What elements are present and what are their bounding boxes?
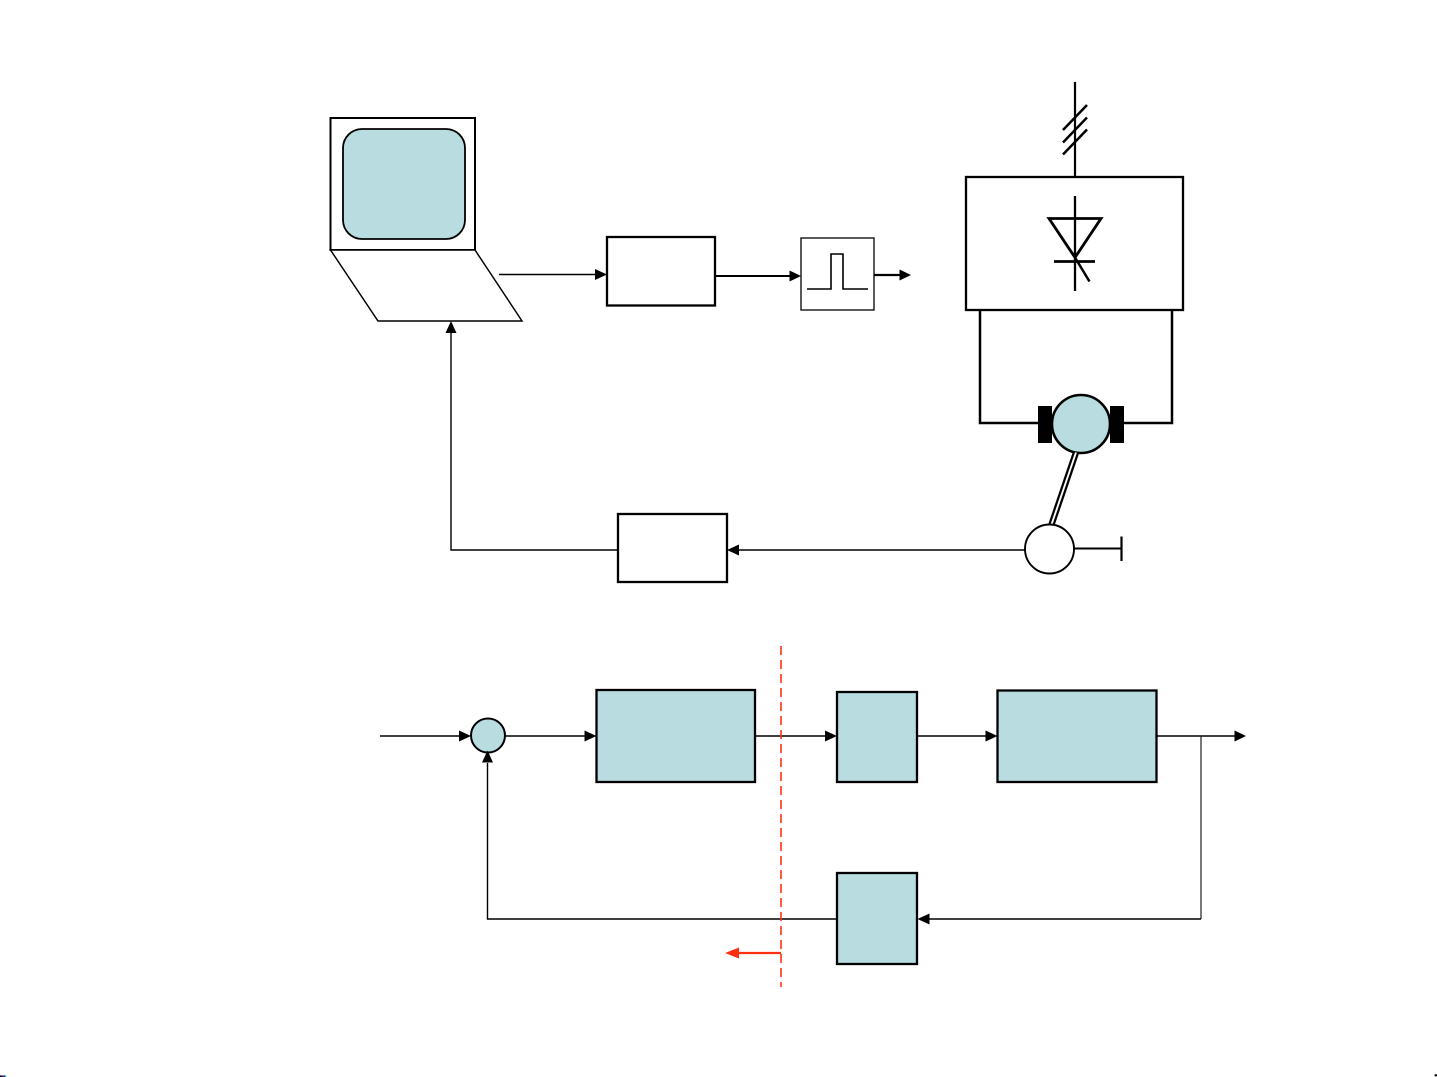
controller box bbox=[607, 237, 715, 306]
motor brush left bbox=[1038, 406, 1052, 443]
output arrow of pulse unit bbox=[874, 274, 900, 276]
converter block bbox=[837, 692, 917, 782]
summing junction bbox=[471, 719, 505, 753]
motor shaft bbox=[1051, 453, 1076, 527]
tachometer bbox=[1025, 525, 1074, 574]
tachometer terminal bar bbox=[1120, 537, 1122, 562]
red arrow bbox=[738, 952, 781, 954]
wire interface box to computer bbox=[451, 333, 618, 550]
tachometer terminal line bbox=[1074, 548, 1121, 550]
computer screen bbox=[343, 129, 465, 239]
computer keyboard bbox=[331, 250, 523, 321]
controller block bbox=[597, 690, 756, 782]
feedback wire right bbox=[929, 918, 1201, 920]
interface box bbox=[618, 514, 727, 582]
pulse symbol bbox=[807, 254, 868, 289]
feedback block bbox=[837, 873, 917, 964]
wire converter block to motor block bbox=[917, 735, 986, 737]
wire summing junction to controller block bbox=[505, 735, 585, 737]
motor brush right bbox=[1110, 406, 1124, 443]
thyristor converter box bbox=[966, 177, 1183, 310]
pulse unit box bbox=[801, 238, 874, 310]
motor armature bbox=[1052, 395, 1110, 453]
wire controller block to converter block bbox=[755, 735, 825, 737]
corner artifact bottom-left bbox=[0, 1075, 2, 1077]
output wire bbox=[1157, 735, 1235, 737]
thyristor gate bbox=[1075, 258, 1090, 282]
three-phase supply line bbox=[1074, 82, 1076, 177]
supply slash 2 bbox=[1063, 118, 1087, 143]
motor block bbox=[998, 691, 1157, 783]
feedback tap wire bbox=[1200, 737, 1202, 920]
thyristor vertical lead bbox=[1074, 196, 1076, 291]
corner artifact bottom-right bbox=[1435, 1074, 1437, 1076]
input wire bbox=[380, 735, 459, 737]
wire controller box to pulse unit bbox=[715, 275, 790, 277]
supply slash 1 bbox=[1063, 105, 1087, 130]
supply slash 3 bbox=[1063, 130, 1087, 155]
wire converter to motor right bbox=[1124, 309, 1172, 423]
wire converter to motor left bbox=[980, 309, 1038, 423]
computer monitor bbox=[331, 118, 476, 250]
thyristor triangle bbox=[1049, 219, 1101, 258]
red dashed partition line bbox=[780, 646, 782, 987]
feedback wire tacho to interface box bbox=[739, 549, 1025, 551]
wire computer to controller box bbox=[499, 274, 595, 276]
thyristor cathode bar bbox=[1054, 260, 1095, 263]
feedback wire left to summing junction bbox=[488, 763, 838, 919]
